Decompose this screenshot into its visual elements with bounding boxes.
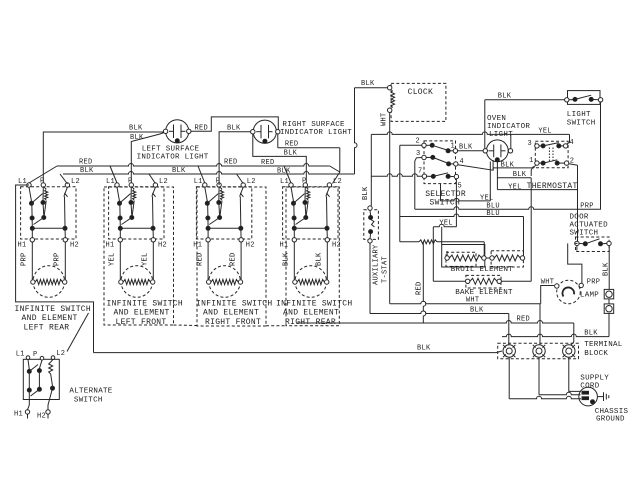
wire selector3 down (414, 161, 416, 209)
wire door switch to lamp (576, 245, 578, 251)
wire RED left light to right light (191, 117, 278, 131)
wire terminal 2 to plug (538, 357, 540, 394)
wire RED bus drop to L1 right rear (284, 166, 291, 183)
svg-text:BLK: BLK (172, 167, 186, 175)
supply cord plug (579, 387, 598, 406)
selector terminal 5 (454, 174, 458, 178)
terminal P (217, 183, 221, 187)
svg-text:RED: RED (285, 140, 299, 148)
L2 contact blade (326, 187, 330, 196)
wire BLK bus (60, 174, 68, 184)
clock dashed box (391, 83, 446, 121)
selector terminal 2 (422, 143, 426, 147)
wire BLK selector1 to oven light (458, 150, 484, 152)
svg-text:AND ELEMENT: AND ELEMENT (203, 309, 259, 318)
wire YEL selector area (441, 198, 491, 201)
svg-text:L2: L2 (71, 178, 80, 186)
switch contacts (291, 187, 294, 201)
svg-text:INFINITE SWITCH: INFINITE SWITCH (276, 300, 353, 309)
svg-text:INFINITE SWITCH: INFINITE SWITCH (107, 300, 184, 309)
element E-LEFT REAR wires (31, 242, 33, 280)
terminal block lug 2 (533, 345, 545, 357)
wire selector3 left (415, 158, 422, 162)
svg-text:INFINITE SWITCH: INFINITE SWITCH (15, 305, 92, 314)
wire RED bus drop to L1 right front (198, 166, 205, 183)
infinite switch S-RIGHT REAR dashed body (283, 187, 338, 239)
terminal H2 (240, 228, 242, 237)
svg-text:H2: H2 (246, 242, 255, 250)
terminal L2 (241, 183, 245, 187)
svg-text:RED: RED (224, 159, 238, 167)
wire selector4 diagonal (458, 165, 493, 170)
element E-RIGHT REAR wires (293, 242, 295, 280)
svg-text:H1: H1 (106, 242, 115, 250)
svg-text:P: P (128, 178, 133, 186)
svg-text:L1: L1 (16, 351, 25, 359)
selector terminal 7 (422, 174, 426, 178)
svg-text:RED: RED (261, 159, 275, 167)
terminal H1 (119, 228, 121, 237)
alternate switch H terminals (28, 390, 30, 405)
dashed link between block outlines (266, 325, 286, 327)
terminal H1 (31, 228, 33, 237)
pointer line to alternate switch (67, 313, 89, 352)
svg-text:SWITCH: SWITCH (570, 230, 599, 238)
infinite switch S-RIGHT FRONT dashed body (196, 187, 251, 239)
svg-text:YEL: YEL (109, 252, 117, 266)
svg-text:BROIL ELEMENT: BROIL ELEMENT (451, 266, 514, 274)
light switch terminals (565, 98, 569, 102)
wire BLK door switch down (608, 246, 610, 290)
svg-text:TERMINAL: TERMINAL (584, 341, 623, 349)
broil element resistor 2 dashed box (491, 251, 523, 267)
door actuated switch S4 dashed body (576, 237, 610, 252)
svg-text:1: 1 (529, 157, 534, 165)
svg-text:INDICATOR LIGHT: INDICATOR LIGHT (280, 129, 352, 137)
svg-text:GROUND: GROUND (596, 415, 625, 423)
terminal L2 (65, 183, 69, 187)
wire BLK long bottom (94, 352, 497, 354)
svg-text:PRP: PRP (54, 252, 62, 266)
svg-text:P: P (33, 351, 38, 359)
svg-text:LEFT SURFACE: LEFT SURFACE (142, 146, 200, 154)
surface element E-LEFT REAR (33, 266, 65, 298)
svg-text:LIGHT: LIGHT (489, 131, 513, 139)
wire BLK aux t-stat to terminal block (369, 243, 371, 313)
svg-text:BLK: BLK (277, 168, 291, 176)
switch contacts (205, 187, 208, 201)
svg-text:BLK: BLK (470, 307, 484, 315)
block outline (104, 187, 174, 325)
svg-text:3: 3 (528, 140, 533, 148)
svg-text:WHT: WHT (466, 297, 480, 305)
svg-text:BLK: BLK (361, 80, 375, 88)
clock terminals (388, 86, 392, 90)
L2 contact blade (240, 187, 244, 196)
svg-text:YEL: YEL (538, 127, 552, 135)
terminal L2 (327, 183, 331, 187)
ground terminal square 2 (604, 304, 614, 314)
wire BLK bus drop to L2 left front (149, 174, 155, 184)
svg-text:YEL: YEL (142, 252, 150, 266)
thermostat terminal 4 (563, 144, 567, 148)
svg-text:BLK: BLK (459, 144, 473, 152)
terminal L1 (27, 183, 31, 187)
selector terminal 4 (454, 162, 458, 166)
terminal L1 (203, 183, 207, 187)
L2 contact blade (152, 187, 156, 196)
terminal H1 (293, 228, 295, 237)
wire WHT clock neutral (389, 112, 391, 303)
svg-text:T-STAT: T-STAT (382, 256, 390, 283)
wire BLK right light left to P/L1 right front (219, 132, 251, 185)
wire RED main feed (296, 321, 574, 324)
wire bake left feed (432, 227, 434, 281)
svg-text:YEL: YEL (508, 183, 522, 191)
svg-text:H1: H1 (18, 242, 27, 250)
svg-text:RED: RED (517, 316, 531, 324)
wire YEL selector5 (433, 224, 456, 227)
infinite switch S-LEFT FRONT dashed body (109, 187, 164, 239)
wire selector7 left (371, 174, 422, 176)
pilot resistor (131, 187, 134, 190)
terminal block lug 1 (503, 345, 515, 357)
svg-text:INDICATOR LIGHT: INDICATOR LIGHT (137, 154, 209, 162)
element E-LEFT FRONT wires (119, 242, 121, 280)
wire RED bus (29, 166, 57, 183)
wire BLK to thermostat 1 (492, 160, 494, 170)
oven indicator light DS3 (486, 140, 508, 162)
svg-text:RIGHT SURFACE: RIGHT SURFACE (282, 121, 345, 129)
svg-text:DOOR: DOOR (570, 214, 589, 222)
terminal H2 (326, 228, 328, 237)
alternate switch terminals (26, 356, 30, 360)
svg-text:BLK: BLK (513, 171, 527, 179)
wire BLK bus drop to L2 right front (237, 174, 244, 184)
surface element E-LEFT FRONT (121, 266, 153, 298)
svg-text:AND ELEMENT: AND ELEMENT (114, 309, 170, 318)
svg-text:BLK: BLK (584, 329, 598, 337)
auxiliary t-stat dashed body (364, 210, 379, 240)
svg-text:CLOCK: CLOCK (408, 88, 434, 97)
terminal H2 (152, 228, 154, 237)
wire WHT up to oven lamp (541, 286, 554, 304)
block outline (197, 187, 266, 326)
broil element resistor 2 (490, 256, 494, 260)
svg-text:PRP: PRP (21, 252, 29, 266)
svg-text:BLOCK: BLOCK (584, 350, 608, 358)
svg-text:BLK: BLK (130, 134, 144, 142)
svg-text:LEFT FRONT: LEFT FRONT (116, 318, 167, 327)
svg-text:LEFT REAR: LEFT REAR (24, 323, 70, 332)
wire broil R1 left feed (441, 227, 443, 245)
svg-text:LIGHT: LIGHT (567, 111, 591, 119)
light switch S3 body (568, 91, 601, 105)
surface element E-RIGHT REAR (295, 266, 327, 298)
svg-text:L2: L2 (247, 178, 256, 186)
svg-text:L1: L1 (280, 178, 289, 186)
selector switch S2 dashed body (424, 141, 456, 184)
thermostat terminal 3 (535, 144, 539, 148)
svg-text:L1: L1 (194, 178, 203, 186)
switch contacts (29, 187, 32, 201)
terminal P (129, 183, 133, 187)
svg-text:PRP: PRP (587, 279, 601, 287)
wire selector2 left (400, 144, 422, 146)
wire BLU-2 selector2 to broil right (400, 214, 524, 217)
svg-text:BLK: BLK (501, 161, 515, 169)
svg-text:BLK: BLK (498, 93, 512, 101)
svg-text:BLK: BLK (603, 262, 611, 276)
wire BLK selector7 to aux t-stat (370, 134, 372, 206)
wire BLK oven light up to light switch (484, 100, 486, 149)
broil element resistor 1 (445, 256, 449, 260)
terminal L2 (153, 183, 157, 187)
svg-text:P: P (216, 178, 221, 186)
wire BLK thermostat 1 to bake right (531, 166, 533, 176)
wire terminal 3 to plug (569, 357, 580, 391)
wire RED bus drop to L1 left front (110, 166, 117, 183)
svg-text:LAMP: LAMP (580, 292, 599, 300)
svg-text:SUPPLY: SUPPLY (580, 375, 609, 383)
svg-text:BLU: BLU (486, 210, 500, 218)
chassis ground (597, 396, 603, 398)
svg-text:P: P (40, 178, 45, 186)
switch contacts (117, 187, 120, 201)
wire BLU selector3 to light switch PRP run (415, 207, 600, 210)
svg-text:1: 1 (451, 143, 456, 151)
svg-text:BLK: BLK (227, 125, 241, 133)
svg-text:WHT: WHT (381, 112, 389, 126)
terminal H2 (64, 228, 66, 237)
wire TAN broil feed (400, 241, 419, 243)
svg-text:AND ELEMENT: AND ELEMENT (22, 314, 78, 323)
svg-text:7: 7 (418, 168, 423, 176)
terminal L1 (289, 183, 293, 187)
selector terminal 3 (422, 155, 426, 159)
svg-text:BLK: BLK (80, 167, 94, 175)
svg-text:H1: H1 (14, 411, 23, 419)
svg-text:RED: RED (416, 281, 424, 295)
wire BLK right light to P right rear (253, 134, 306, 183)
wire door switch left feed (575, 242, 578, 244)
svg-text:L1: L1 (106, 178, 115, 186)
terminal block dashed body (498, 343, 579, 359)
svg-text:H1: H1 (280, 242, 289, 250)
svg-text:H2: H2 (70, 242, 79, 250)
svg-text:INDICATOR: INDICATOR (487, 123, 530, 131)
svg-text:H2: H2 (37, 413, 46, 421)
wire WHT neutral (390, 301, 541, 304)
terminal L1 (115, 183, 119, 187)
wire BLK clock vertical to bus (355, 88, 358, 174)
svg-text:4: 4 (570, 139, 575, 147)
wire YEL thermostat 2 (569, 164, 578, 166)
wire BLK to light switch (485, 99, 565, 101)
terminal P (303, 183, 307, 187)
indicator light DS1 left surface (166, 120, 189, 143)
thermostat terminal 2 (564, 161, 568, 165)
svg-text:L2: L2 (333, 178, 342, 186)
alternate switch resistor (51, 359, 53, 362)
pilot resistor (219, 187, 222, 190)
svg-text:BLK: BLK (129, 125, 143, 133)
wire BLK pilot b1 to left light (43, 132, 163, 183)
svg-text:RED: RED (195, 125, 209, 133)
wire BLK pilot b2 to left light (131, 133, 164, 184)
svg-text:WHT: WHT (541, 278, 555, 286)
svg-text:AND ELEMENT: AND ELEMENT (283, 309, 339, 318)
L2 contact blade (64, 187, 68, 196)
svg-text:H2: H2 (158, 242, 167, 250)
svg-text:BLK: BLK (284, 149, 298, 157)
svg-text:CORD: CORD (580, 383, 599, 391)
svg-text:RED: RED (79, 159, 93, 167)
wire BLK squares down (608, 313, 610, 336)
svg-text:BLK: BLK (362, 186, 370, 200)
pilot resistor (305, 187, 308, 190)
terminal block lug 3 (563, 345, 575, 357)
bake element (466, 279, 470, 283)
svg-text:BLK: BLK (316, 252, 324, 266)
terminal H1 (207, 228, 209, 237)
selector terminal 1 (453, 149, 457, 153)
wire BLK to clock (355, 87, 388, 89)
wire WHT down to terminal 2 (539, 304, 541, 345)
wire light switch right down (599, 102, 602, 209)
broil element resistor 1 box (442, 245, 485, 268)
svg-text:ALTERNATE: ALTERNATE (69, 388, 112, 396)
svg-text:OVEN: OVEN (487, 115, 506, 123)
terminal P (41, 183, 45, 187)
wire between squares (608, 299, 610, 304)
pilot resistor (43, 187, 46, 190)
svg-text:AUXILIARY: AUXILIARY (373, 244, 381, 285)
oven thermostat dashed body (535, 141, 568, 168)
thermostat contacts (541, 144, 545, 148)
svg-text:3: 3 (416, 150, 421, 158)
svg-text:INFINITE SWITCH: INFINITE SWITCH (196, 300, 273, 309)
element E-RIGHT FRONT wires (207, 242, 209, 280)
svg-text:SWITCH: SWITCH (430, 199, 461, 208)
svg-text:2: 2 (416, 138, 421, 146)
thermostat terminal 1 (535, 161, 539, 165)
wire L1 left rear feed (16, 185, 94, 353)
svg-text:SWITCH: SWITCH (74, 397, 103, 405)
wire terminal 1 to plug (508, 357, 510, 398)
aux t-stat terminals (368, 206, 372, 210)
svg-text:BLK: BLK (417, 344, 431, 352)
svg-text:H1: H1 (193, 242, 202, 250)
wire bake right feed (501, 280, 531, 282)
indicator light DS2 right surface (253, 120, 276, 143)
infinite switch S-LEFT REAR dashed body (21, 187, 76, 239)
oven lamp (557, 280, 581, 304)
wire YEL oven light to thermostat 4 (510, 134, 512, 148)
door switch terminals (575, 241, 579, 245)
svg-text:YEL: YEL (480, 194, 494, 202)
svg-text:L2: L2 (159, 178, 168, 186)
svg-text:L2: L2 (56, 350, 65, 358)
wire RED right light to L2 right rear (277, 134, 279, 148)
surface element E-RIGHT FRONT (209, 266, 241, 298)
selector contacts (430, 143, 434, 147)
svg-text:RED: RED (229, 252, 237, 266)
alternate switch S5 body (23, 359, 59, 399)
wire selector2 down (399, 145, 401, 242)
wire RED drop to main feed (423, 242, 426, 323)
dashed link between block outlines (174, 324, 198, 327)
svg-text:SWITCH: SWITCH (567, 120, 596, 128)
alternate switch contacts (27, 369, 31, 373)
svg-text:ACTUATED: ACTUATED (570, 222, 609, 230)
ground terminal square 1 (604, 289, 614, 299)
svg-text:YEL: YEL (439, 219, 453, 227)
svg-text:BAKE ELEMENT: BAKE ELEMENT (455, 289, 513, 297)
bake element dashed box (466, 275, 501, 288)
block outline (286, 187, 339, 326)
